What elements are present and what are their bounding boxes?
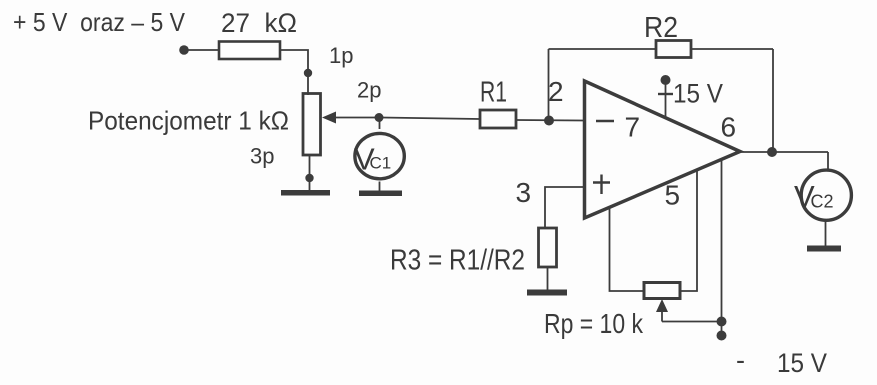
svg-text:15 V: 15 V (777, 348, 827, 378)
ground (Vc1) (359, 191, 402, 197)
node pin 2 (544, 116, 554, 126)
wire +15V to op-amp top (665, 80, 667, 118)
node -15V junction (717, 317, 727, 327)
svg-text:Rp = 10 k: Rp = 10 k (544, 308, 644, 339)
wire feedback down to output (772, 49, 774, 152)
ground (Vc2) (807, 246, 841, 252)
node A (left supply node) (179, 45, 189, 55)
resistor 27 kOhm (219, 42, 280, 60)
wire wiper to Vc1 and R1 (379, 118, 480, 120)
svg-text:2p: 2p (357, 78, 381, 103)
wire feedback up from node 2 (548, 49, 550, 121)
wire R1 to op-amp pin 2 (516, 119, 583, 122)
plus tick of +15V (658, 93, 673, 95)
wire Vc1 stub (379, 118, 381, 130)
wire node A to R 27k (184, 49, 219, 51)
wire offset null pin 1 down to Rp left (610, 207, 645, 291)
source Vc2 (801, 170, 851, 220)
Rp wiper arrow (661, 307, 663, 322)
ground (R3) (527, 290, 567, 296)
node output (767, 147, 777, 157)
wire feedback top left (549, 48, 657, 50)
svg-text:27 kΩ: 27 kΩ (221, 8, 297, 38)
wire Vc2 to ground (825, 220, 827, 246)
wire offset null pin 5 down to Rp right (680, 169, 697, 292)
node 1p junction (304, 69, 312, 77)
resistor R3 (539, 228, 557, 267)
svg-text:15 V: 15 V (673, 79, 723, 109)
potentiometer P1 body (303, 94, 321, 156)
svg-text:2: 2 (548, 76, 564, 107)
svg-text:3p: 3p (250, 144, 274, 169)
svg-text:+ 5 V oraz – 5 V: + 5 V oraz – 5 V (13, 7, 186, 37)
svg-text:R3 = R1//R2: R3 = R1//R2 (390, 245, 525, 277)
wire op-amp pin 3 (545, 187, 583, 228)
potentiometer Rp body (644, 283, 680, 299)
wire op-amp output (740, 151, 828, 153)
source Vc1 (355, 133, 404, 178)
node at Vc1 tap (375, 113, 384, 122)
resistor R1 (480, 110, 516, 128)
svg-text:Potencjometr 1 kΩ: Potencjometr 1 kΩ (88, 106, 289, 136)
svg-text:-: - (736, 345, 745, 375)
wire pot bottom 3p to ground (309, 155, 311, 191)
plus sign pin 3 (593, 175, 610, 195)
minus sign pin 2 (596, 120, 614, 123)
wire feedback top right (691, 48, 773, 50)
svg-text:C2: C2 (811, 192, 834, 212)
svg-text:R2: R2 (644, 12, 678, 44)
svg-text:3: 3 (516, 177, 532, 208)
wire Rp wiper to -15V node (662, 321, 722, 323)
ground (pot) (281, 190, 330, 196)
wire Vc1 to ground (379, 182, 381, 192)
svg-text:6: 6 (721, 112, 737, 143)
svg-text:7: 7 (625, 112, 641, 143)
svg-text:R1: R1 (480, 77, 507, 109)
node -15V terminal (717, 331, 727, 341)
node 3p junction (305, 174, 313, 182)
resistor R2 (656, 41, 691, 58)
potentiometer wiper arrow (334, 117, 379, 119)
svg-text:C1: C1 (370, 154, 392, 173)
svg-text:5: 5 (665, 180, 681, 211)
op-amp U1 triangle (585, 81, 741, 218)
wire op-amp V- pin down (721, 159, 723, 336)
+15V supply dot (661, 75, 671, 85)
wire down to Vc2 (827, 152, 829, 169)
wire R3 to ground (547, 267, 549, 290)
wire R 27k to pot pin 1p (280, 50, 308, 95)
svg-text:1p: 1p (329, 43, 353, 68)
